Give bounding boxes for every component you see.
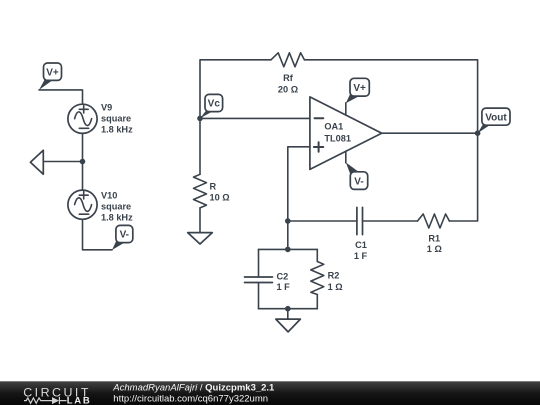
junction plus-input node xyxy=(285,218,291,224)
node label V+ (left source top) xyxy=(39,63,62,90)
svg-text:square: square xyxy=(101,114,131,124)
op-amp OA1 xyxy=(310,97,382,169)
wire Vc to op-amp inverting input xyxy=(200,117,310,119)
wire R to ground xyxy=(199,208,201,233)
node label Vc xyxy=(200,94,223,118)
svg-text:V-: V- xyxy=(354,176,363,187)
junction Vc node xyxy=(197,116,203,122)
capacitor C1 xyxy=(354,207,368,261)
svg-text:LAB: LAB xyxy=(67,395,92,405)
wire R1 to C1 xyxy=(363,220,418,222)
svg-text:TL081: TL081 xyxy=(324,134,351,144)
svg-text:Vc: Vc xyxy=(208,99,221,110)
svg-text:1 Ω: 1 Ω xyxy=(328,282,343,292)
ground (below C2/R2) xyxy=(276,319,301,332)
ground (below R) xyxy=(188,233,213,244)
svg-text:1 F: 1 F xyxy=(277,282,291,292)
CircuitLab logo resistor-diode symbol xyxy=(24,397,67,404)
svg-text:20 Ω: 20 Ω xyxy=(278,84,298,94)
wire top rail right segment xyxy=(304,60,477,133)
junction Vout node xyxy=(475,130,481,136)
wire combo to ground xyxy=(287,309,289,319)
wire top rail left segment xyxy=(200,60,271,119)
resistor Rf xyxy=(271,53,304,95)
junction between V9 and V10 xyxy=(80,159,86,165)
node label V+ (op-amp supply) xyxy=(346,78,370,103)
svg-text:V+: V+ xyxy=(46,67,59,78)
svg-text:1 Ω: 1 Ω xyxy=(427,244,442,254)
svg-text:square: square xyxy=(101,202,131,212)
op-amp V+ supply pin xyxy=(345,103,347,115)
svg-text:C2: C2 xyxy=(277,271,289,281)
op-amp V- supply pin xyxy=(345,151,347,163)
svg-text:Rf: Rf xyxy=(283,73,294,83)
wire V+ to V9 top xyxy=(39,90,83,104)
svg-text:1 F: 1 F xyxy=(354,251,368,261)
svg-text:1.8 kHz: 1.8 kHz xyxy=(101,213,133,223)
node label V- (op-amp supply) xyxy=(346,162,368,189)
junction bottom of C2/R2 xyxy=(285,306,291,312)
wire combo bottom rail xyxy=(259,308,318,310)
wire C1 to plus-input junction xyxy=(288,220,357,222)
svg-text:1.8 kHz: 1.8 kHz xyxy=(101,125,133,135)
svg-text:R2: R2 xyxy=(328,271,340,281)
wire junction to ground arrow xyxy=(43,161,82,163)
ground symbol (left arrow) xyxy=(30,150,43,174)
svg-text:V9: V9 xyxy=(101,103,112,113)
footer bar xyxy=(0,381,540,405)
wire junction down to parallel combo xyxy=(287,221,289,249)
wire V10 bottom to V- label xyxy=(83,219,113,250)
resistor R xyxy=(194,174,230,208)
svg-text:http://circuitlab.com/cq6n77y3: http://circuitlab.com/cq6n77y322umn xyxy=(113,394,268,405)
junction top of C2/R2 xyxy=(285,247,291,253)
svg-text:Vout: Vout xyxy=(485,112,507,123)
resistor R1 xyxy=(418,214,450,254)
svg-text:C1: C1 xyxy=(355,240,367,250)
svg-text:R1: R1 xyxy=(428,234,440,244)
wire V9 bottom to V10 top xyxy=(82,133,84,190)
svg-text:V+: V+ xyxy=(353,83,366,94)
svg-text:OA1: OA1 xyxy=(324,122,343,132)
wire Vc down to R xyxy=(199,118,201,174)
wire combo top rail xyxy=(259,248,318,250)
svg-text:R: R xyxy=(210,182,217,192)
voltage source V9 xyxy=(68,103,133,135)
capacitor C2 xyxy=(245,249,291,308)
svg-text:10 Ω: 10 Ω xyxy=(210,193,230,203)
svg-text:V-: V- xyxy=(120,230,129,241)
voltage source V10 xyxy=(68,190,133,222)
svg-text:V10: V10 xyxy=(101,190,117,200)
svg-text:AchmadRyanAlFajri / Quizcpmk3_: AchmadRyanAlFajri / Quizcpmk3_2.1 xyxy=(112,383,275,394)
wire op-amp non-inverting input down xyxy=(288,147,310,221)
node label V- (left source bottom) xyxy=(112,225,133,250)
resistor R2 xyxy=(311,249,343,308)
wire right rail down to R1 xyxy=(449,133,477,221)
node label Vout xyxy=(478,108,510,133)
wire op-amp output to right rail xyxy=(382,132,478,134)
